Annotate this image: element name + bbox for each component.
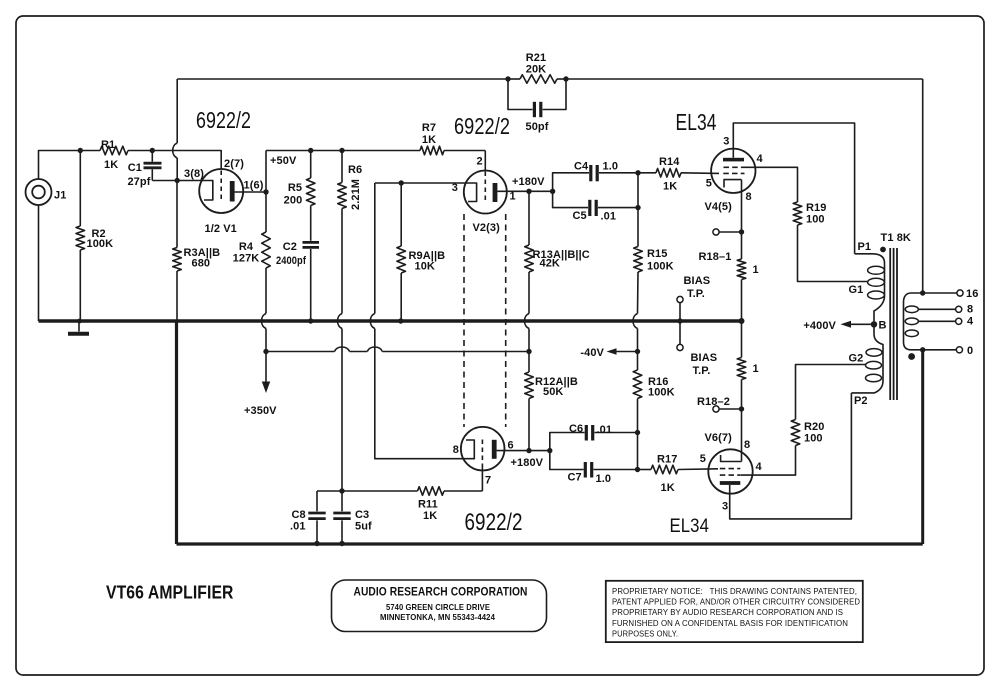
svg-text:1(6): 1(6) <box>244 180 264 192</box>
svg-text:.01: .01 <box>601 211 617 223</box>
capacitor C4 <box>553 161 638 192</box>
node R1-C1 junction <box>150 148 155 153</box>
svg-text:3: 3 <box>452 182 458 194</box>
svg-text:C2: C2 <box>283 241 297 253</box>
testpoint R18-1 <box>713 229 719 235</box>
resistor R12A||B <box>525 352 578 399</box>
svg-text:R20: R20 <box>804 421 824 433</box>
hop R15 over ground bus <box>633 314 638 329</box>
terminal 4 <box>956 318 962 324</box>
wire mid rail segment <box>266 351 335 353</box>
resistor R18-2 <box>737 358 759 380</box>
svg-text:J1: J1 <box>54 190 66 202</box>
svg-text:1K: 1K <box>663 181 677 193</box>
svg-text:680: 680 <box>192 258 211 270</box>
svg-text:100: 100 <box>804 433 823 445</box>
svg-text:0: 0 <box>967 345 973 357</box>
svg-text:1: 1 <box>753 363 759 375</box>
svg-text:3: 3 <box>722 501 728 513</box>
resistor R1 <box>100 139 128 171</box>
svg-text:.01: .01 <box>597 424 613 436</box>
tube V4 g1 dash <box>723 172 744 174</box>
svg-text:6: 6 <box>508 440 514 452</box>
node B tap <box>871 321 877 327</box>
node R18-2 tap <box>739 406 744 411</box>
svg-text:R15: R15 <box>647 248 667 260</box>
node bus right end <box>739 318 745 324</box>
wire V1 anode riser <box>265 151 267 233</box>
svg-text:16: 16 <box>966 288 978 300</box>
svg-text:6922/2: 6922/2 <box>196 107 251 133</box>
wire V1 anode <box>235 191 266 193</box>
tube V6 anode bar <box>720 481 741 485</box>
svg-text:4: 4 <box>756 461 763 473</box>
node R12 bottom <box>526 448 531 453</box>
svg-text:3: 3 <box>723 136 729 148</box>
resistor R6 <box>338 151 363 211</box>
node R5C2 ground <box>308 318 313 323</box>
svg-text:R14: R14 <box>659 156 680 168</box>
tube V6 g2 dash <box>720 474 741 476</box>
wire R13 down <box>528 272 530 314</box>
svg-text:2: 2 <box>477 156 483 168</box>
svg-text:P1: P1 <box>858 241 872 253</box>
resistor R14 <box>638 156 719 193</box>
svg-text:+400V: +400V <box>803 320 836 332</box>
capacitor 50pf <box>508 79 566 133</box>
svg-text:G1: G1 <box>849 284 864 296</box>
terminal 16 <box>957 290 963 296</box>
tube V1 grid dash <box>220 171 222 202</box>
svg-text:V6(7): V6(7) <box>705 432 733 444</box>
svg-text:5740 GREEN CIRCLE DRIVE: 5740 GREEN CIRCLE DRIVE <box>386 602 490 612</box>
svg-text:FURNISHED ON A CONFIDENTAL BAS: FURNISHED ON A CONFIDENTAL BASIS FOR IDE… <box>612 618 848 628</box>
node C3 ground <box>339 541 344 546</box>
hop R4 over ground bus <box>262 314 267 329</box>
svg-text:200: 200 <box>284 195 303 207</box>
svg-text:100K: 100K <box>647 261 674 273</box>
wire V1 cathode line <box>152 180 201 182</box>
capacitor C6 <box>550 423 638 451</box>
node R5 top <box>308 148 313 153</box>
wire 4 tap <box>918 320 955 322</box>
svg-text:C3: C3 <box>355 509 369 521</box>
tube V1 anode bar <box>230 181 235 202</box>
svg-text:127K: 127K <box>233 253 260 265</box>
svg-text:R11: R11 <box>418 499 438 511</box>
svg-text:100: 100 <box>806 214 825 226</box>
svg-text:42K: 42K <box>540 258 560 270</box>
svg-text:+350V: +350V <box>244 405 277 417</box>
node C3 top <box>339 488 344 493</box>
tube V4 envelope <box>711 149 755 193</box>
transformer primary coil lower <box>851 324 883 393</box>
svg-text:V2(3): V2(3) <box>473 222 501 234</box>
wire R4 to +350V node <box>265 329 267 352</box>
svg-text:EL34: EL34 <box>676 109 717 135</box>
svg-text:C1: C1 <box>128 162 142 174</box>
wire 8 tap <box>918 308 955 310</box>
svg-text:8: 8 <box>453 444 459 456</box>
hop cathode link over ground bus <box>370 314 375 329</box>
svg-text:R18–1: R18–1 <box>699 251 732 263</box>
tube V6 g1 dash <box>720 468 741 470</box>
hop feedback over input line <box>173 143 178 158</box>
svg-text:R17: R17 <box>657 454 677 466</box>
node -40V tap <box>635 349 640 354</box>
wire V3 grid drop <box>481 466 483 492</box>
wire J1 to ground bus <box>38 205 40 321</box>
wire cathode link to V3 <box>375 329 463 459</box>
svg-text:P2: P2 <box>854 395 868 407</box>
connector J1 <box>26 179 67 205</box>
svg-text:50K: 50K <box>543 386 563 398</box>
resistor R18-1 <box>737 259 759 280</box>
tube V4 g2 dash <box>724 166 746 168</box>
node 0 ground junction <box>920 347 925 352</box>
resistor R16 <box>633 352 675 399</box>
resistor R7 <box>420 122 444 155</box>
svg-text:2(7): 2(7) <box>224 158 244 170</box>
node R18-1 tap <box>739 229 744 234</box>
tube V2V3 envelope dashes <box>463 214 465 427</box>
node R9 top <box>399 180 404 185</box>
svg-text:R1: R1 <box>101 139 115 151</box>
svg-text:T.P.: T.P. <box>687 288 705 300</box>
transformer secondary coil <box>904 293 912 350</box>
node 16 feedback junction <box>920 290 925 295</box>
tube V2 grid dash <box>484 172 486 203</box>
transformer primary phase dot <box>880 247 886 253</box>
resistor R4 <box>233 232 271 268</box>
node R2 ground <box>77 319 82 324</box>
node C6C7 left <box>547 448 552 453</box>
tube V3 anode bar <box>492 440 497 459</box>
svg-text:+180V: +180V <box>512 176 545 188</box>
svg-text:BIAS: BIAS <box>684 275 711 287</box>
svg-text:C8: C8 <box>292 509 306 521</box>
ground bus lower <box>177 542 923 545</box>
wire V2 anode <box>497 190 552 192</box>
svg-text:R7: R7 <box>422 122 436 134</box>
node R9 ground <box>398 318 403 323</box>
wire R19 to G1 <box>798 225 869 282</box>
node R21 left <box>505 76 510 81</box>
wire R6 down <box>341 209 343 314</box>
terminal 0 <box>956 347 962 353</box>
wire feedback left drop <box>176 79 178 143</box>
wire R18-1 to bus <box>741 280 743 322</box>
svg-text:+50V: +50V <box>270 155 297 167</box>
wire R15 to -40V node <box>637 329 639 352</box>
svg-text:50pf: 50pf <box>526 121 549 133</box>
resistor R15 <box>634 247 674 273</box>
wire R11 line <box>317 490 418 492</box>
wire C4C5 right bracket <box>637 173 639 208</box>
wire V2 grid drop <box>484 151 486 172</box>
svg-text:8: 8 <box>744 439 750 451</box>
svg-text:10K: 10K <box>415 261 435 273</box>
resistor R13A||B||C <box>525 191 590 272</box>
tube V1 cathode <box>201 181 213 201</box>
transformer primary coil upper <box>855 254 885 321</box>
svg-text:G2: G2 <box>849 353 864 365</box>
capacitor C7 <box>550 451 638 485</box>
node C6 right <box>635 430 640 435</box>
wire R15 down <box>637 272 640 314</box>
node V1 cathode junction <box>175 178 180 183</box>
svg-text:EL34: EL34 <box>670 515 710 537</box>
capacitor C1 <box>127 151 161 189</box>
wire R18-2 to V6 cathode <box>741 409 743 462</box>
capacitor C3 <box>333 491 372 544</box>
svg-text:C5: C5 <box>573 210 587 222</box>
svg-text:20K: 20K <box>526 64 546 76</box>
wire R16 to C6 node <box>637 399 639 433</box>
hop R6 over ground bus <box>338 314 343 329</box>
svg-text:PROPRIETARY NOTICE: THIS DRA: PROPRIETARY NOTICE: THIS DRAWING CONTAIN… <box>612 586 857 596</box>
svg-text:R19: R19 <box>806 202 826 214</box>
terminal 8 <box>956 306 962 312</box>
wire feedback right drop <box>922 79 924 293</box>
svg-text:C7: C7 <box>568 472 582 484</box>
wire R20 to G2 <box>796 365 867 420</box>
svg-text:BIAS: BIAS <box>691 352 718 364</box>
resistor R21 <box>508 52 566 83</box>
transformer secondary phase dot <box>908 353 915 360</box>
svg-text:C4: C4 <box>574 161 589 173</box>
node input-R2 junction <box>78 148 83 153</box>
svg-text:100K: 100K <box>648 387 675 399</box>
svg-text:R6: R6 <box>348 164 362 176</box>
svg-text:2.21M: 2.21M <box>350 179 362 210</box>
wire R15 chain top <box>637 208 639 247</box>
wire V2 cathode line <box>375 182 464 184</box>
svg-text:R21: R21 <box>526 52 546 64</box>
tube V6 cathode <box>721 455 742 462</box>
svg-text:4: 4 <box>757 153 764 165</box>
tube V3 grid dash <box>481 440 483 466</box>
capacitor C8 <box>290 491 326 544</box>
svg-text:4: 4 <box>967 316 974 328</box>
notice box <box>606 581 863 642</box>
wire R6 to C3 node <box>341 329 343 492</box>
wire R1 to V1 grid <box>128 151 221 170</box>
resistor R3A||B <box>173 181 221 272</box>
wire R3 to ground bus <box>176 271 178 321</box>
node V1 anode junction <box>263 189 268 194</box>
wire bus to R18-2 <box>741 321 743 358</box>
svg-text:R18–2: R18–2 <box>697 396 730 408</box>
tube V2 cathode <box>464 183 477 202</box>
node C4 right <box>635 170 640 175</box>
tube V3 envelope <box>461 427 505 471</box>
wire J1 to input line <box>39 151 101 180</box>
wire V4 cathode to R18-1 <box>741 180 743 259</box>
capacitor C5 <box>553 191 638 222</box>
svg-text:27pf: 27pf <box>127 176 150 188</box>
wire V6 g2 to R20 <box>741 446 796 476</box>
resistor R17 <box>638 454 719 495</box>
svg-text:PROPRIETARY BY AUDIO RESEARCH: PROPRIETARY BY AUDIO RESEARCH CORPORATIO… <box>612 607 843 617</box>
wire R18-2 to tap <box>741 380 743 410</box>
svg-text:1.0: 1.0 <box>603 161 619 173</box>
node C5 right <box>635 205 640 210</box>
testpoint bias upper <box>677 275 710 351</box>
svg-text:5: 5 <box>700 453 706 465</box>
svg-text:8: 8 <box>746 191 752 203</box>
svg-text:R4: R4 <box>239 241 254 253</box>
svg-text:100K: 100K <box>87 238 114 250</box>
wire feedback top <box>177 78 508 80</box>
testpoint R18-2 <box>713 406 719 412</box>
tube V4 cathode <box>724 180 742 188</box>
wire 0 tap <box>911 349 956 351</box>
node C7 right <box>635 467 640 472</box>
resistor R20 <box>791 420 824 446</box>
transformer core <box>889 248 891 400</box>
wire R13 to mid node <box>528 329 530 352</box>
node R13 top <box>526 189 531 194</box>
wire V4 g2 to R19 <box>745 167 798 202</box>
svg-text:B: B <box>879 320 887 332</box>
tube V3 cathode <box>463 440 474 459</box>
node +350V tap <box>263 349 268 354</box>
tube V2 anode bar <box>493 183 498 202</box>
svg-text:7: 7 <box>485 475 491 487</box>
wire V4 anode to P1 <box>733 123 854 254</box>
resistor R5 <box>284 151 315 207</box>
svg-text:1: 1 <box>753 264 759 276</box>
svg-text:5: 5 <box>706 178 712 190</box>
node R21 right <box>563 76 568 81</box>
tube V1 envelope <box>199 169 243 213</box>
wire +50V rail <box>266 150 420 152</box>
resistor R11 <box>418 487 445 522</box>
svg-text:8: 8 <box>967 304 973 316</box>
svg-text:AUDIO RESEARCH CORPORATION: AUDIO RESEARCH CORPORATION <box>354 585 528 599</box>
svg-text:PATENT APPLIED FOR, AND/OR OTH: PATENT APPLIED FOR, AND/OR OTHER CIRCUIT… <box>612 597 860 607</box>
svg-text:-40V: -40V <box>580 347 604 359</box>
hop R13 over ground bus <box>525 314 530 329</box>
svg-text:1K: 1K <box>423 510 437 522</box>
svg-text:5uf: 5uf <box>355 521 372 533</box>
svg-text:+180V: +180V <box>511 457 544 469</box>
address box <box>332 580 547 632</box>
svg-text:1K: 1K <box>422 134 436 146</box>
svg-text:1K: 1K <box>661 482 675 494</box>
wire 16 tap <box>911 292 957 294</box>
resistor R9A||B <box>397 183 445 321</box>
svg-text:6922/2: 6922/2 <box>465 509 523 536</box>
svg-text:1/2 V1: 1/2 V1 <box>205 223 237 235</box>
svg-text:V4(5): V4(5) <box>705 201 733 213</box>
svg-text:6922/2: 6922/2 <box>454 113 510 139</box>
wire heavy ground right <box>921 350 924 544</box>
svg-text:VT66 AMPLIFIER: VT66 AMPLIFIER <box>106 583 234 603</box>
wire +350V drop <box>265 352 267 382</box>
ground symbol <box>78 321 80 332</box>
svg-text:1.0: 1.0 <box>596 473 612 485</box>
node C4C5 left <box>550 189 555 194</box>
svg-text:1: 1 <box>510 191 516 203</box>
svg-text:2400pf: 2400pf <box>276 255 306 267</box>
ground bus upper <box>39 319 742 322</box>
capacitor C2 <box>276 206 319 322</box>
svg-text:.01: .01 <box>290 521 306 533</box>
svg-text:T.P.: T.P. <box>693 365 711 377</box>
tube V2 envelope <box>464 171 507 214</box>
svg-text:C6: C6 <box>569 423 583 435</box>
wire V6 anode to P2 <box>730 393 852 519</box>
tube V4 anode bar <box>723 158 744 162</box>
resistor R2 <box>76 151 113 322</box>
wire R4 down <box>265 268 267 314</box>
resistor R19 <box>793 202 826 226</box>
node R6 top <box>339 148 344 153</box>
svg-text:MINNETONKA, MN 55343-4424: MINNETONKA, MN 55343-4424 <box>380 612 495 622</box>
svg-text:R5: R5 <box>288 182 302 194</box>
svg-text:1K: 1K <box>104 159 118 171</box>
wire heavy ground left <box>175 321 178 544</box>
node C8 ground <box>314 541 319 546</box>
arrow +350V <box>262 382 270 394</box>
wire C6-C7 right bracket <box>637 433 639 470</box>
svg-text:T1 8K: T1 8K <box>881 232 911 244</box>
svg-text:3(8): 3(8) <box>184 168 204 180</box>
wire R12 to V3 anode <box>528 399 530 451</box>
wire V3 anode <box>497 450 550 452</box>
node R12R13 junction <box>526 349 531 354</box>
tube V6 envelope <box>708 449 752 493</box>
svg-text:PURPOSES ONLY.: PURPOSES ONLY. <box>612 628 678 638</box>
